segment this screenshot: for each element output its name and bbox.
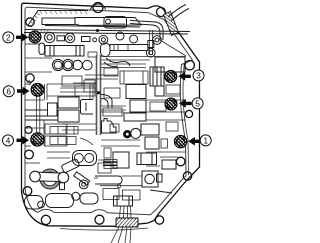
assorted interior right column [146, 40, 186, 166]
arrow for callout 1 [188, 137, 201, 146]
mid-left blocks [25, 97, 79, 122]
small parts row under rod [88, 52, 146, 68]
tube dot [97, 91, 100, 94]
svg-text:4: 4 [6, 136, 11, 146]
svg-text:3: 3 [196, 71, 201, 81]
striped terminal block [103, 160, 118, 169]
long bottom rails [100, 176, 142, 186]
mid-right blocks [124, 85, 146, 122]
svg-text:5: 5 [195, 99, 200, 109]
valve circle E [130, 35, 138, 43]
hatched bolt for callout 6 [31, 83, 44, 96]
extra center density [47, 80, 126, 158]
left perimeter bolt hole upper [26, 74, 34, 82]
svg-text:1: 1 [203, 136, 208, 146]
bottom perimeter bolt hole 1 [41, 215, 50, 224]
vertical slot stadium [39, 43, 45, 55]
hatched bolt for callout 5 [165, 98, 177, 110]
assorted interior linework left column [25, 44, 67, 163]
rod dividers [114, 45, 128, 51]
instrument grille rounded rect [104, 17, 127, 29]
circle next to donut [131, 128, 141, 138]
outer case contour [22, 3, 200, 226]
angled bolt lever [74, 172, 90, 189]
vertical tube right-center [150, 30, 153, 55]
angled white tag [61, 159, 80, 173]
roller rounded rect [101, 43, 111, 57]
hatched casting ticks left edge near hole 6 [27, 80, 34, 87]
valve circle C [99, 35, 108, 44]
top-right cable arcs [168, 5, 189, 22]
top-left perimeter bolt hole [26, 18, 34, 26]
callout circle 6 [3, 86, 14, 97]
bottom-right perimeter bolt hole [155, 216, 163, 224]
black donut [123, 130, 131, 138]
castle part [102, 119, 117, 134]
svg-text:6: 6 [6, 86, 11, 96]
svg-text:2: 2 [6, 33, 11, 43]
arrow for callout 4 [17, 136, 30, 145]
top-right lug bolt hole [157, 8, 166, 17]
port circle 3 [73, 60, 83, 70]
bottom perimeter bolt hole 2 [95, 215, 104, 224]
three port circles [52, 59, 63, 70]
hatched bolt for callout 3 [165, 70, 177, 82]
right interior vertical lines [183, 64, 189, 175]
bottom-right interior blocks [150, 160, 176, 193]
valve circle A [44, 32, 54, 42]
small pivot dot top [106, 19, 111, 24]
harness grommet hatched [116, 218, 138, 227]
callout circle 5 [192, 98, 203, 109]
striped valve band upper [50, 127, 78, 135]
small rect on rail 2 [57, 36, 65, 41]
valve body cylinder left [45, 46, 84, 57]
valve circle D [116, 32, 124, 40]
bottom small blocks [103, 189, 140, 201]
right lower perimeter bolt hole [183, 172, 191, 180]
solenoid square with circle [142, 171, 162, 187]
callout circle 1 [200, 135, 211, 146]
striped valve band lower [50, 137, 93, 146]
bottom gasket passages [25, 192, 99, 209]
right perimeter bolt hole above arrow5 [185, 110, 192, 117]
dumbbell clamp assembly [30, 169, 69, 190]
rod end cap [148, 41, 154, 48]
rounded pocket with two circles [73, 151, 97, 166]
left interior verticals [37, 84, 48, 134]
arrow for callout 5 [179, 99, 192, 108]
callout circle 2 [3, 32, 14, 43]
C bracket [81, 100, 94, 115]
elbow pipe mid [101, 95, 112, 109]
left perimeter bolt hole mid [25, 127, 32, 134]
valve circle F [153, 36, 162, 45]
small screw dot [93, 38, 97, 42]
machined edge ticks near bolt 2 [40, 29, 49, 33]
left perimeter bolt hole lower [25, 150, 34, 159]
bent pipe top-right [130, 21, 163, 41]
manual valve rod [110, 45, 148, 51]
rod ball joint [146, 48, 155, 57]
callout circle 4 [3, 135, 14, 146]
tiny pivot circle [117, 184, 121, 188]
right block upper [150, 57, 185, 96]
top-right hatched spring band [164, 12, 179, 36]
assorted interior linework center [60, 68, 140, 178]
lower wall line [60, 228, 148, 230]
arrow for callout 2 [16, 33, 29, 42]
arrow for callout 3 [178, 72, 191, 81]
right mid perimeter bolt hole [176, 157, 185, 166]
hatched bolt for callout 4 [31, 133, 44, 146]
hatched bolt for callout 1 [174, 135, 186, 147]
harness wires upper [120, 206, 132, 218]
port circle 2 [62, 59, 73, 70]
harness wires lower [111, 227, 131, 243]
valve circle B [65, 33, 75, 43]
top long bar [24, 18, 190, 35]
right-mid small rects [141, 124, 159, 149]
S lever arms [104, 58, 130, 67]
hatched bolt for callout 2 [29, 31, 41, 43]
center vertical tube [97, 55, 101, 135]
port circle 4 [83, 60, 93, 70]
junction dot [96, 29, 99, 32]
arrow for callout 6 [17, 87, 30, 96]
right perimeter bolt hole above callout3 [185, 60, 194, 69]
top lug bolt hole center [91, 3, 106, 13]
small rect on rail 1 [82, 37, 91, 42]
mid center block row [100, 57, 186, 85]
bottom-left perimeter bolt hole [23, 187, 32, 196]
big center-bottom block [113, 152, 157, 168]
callout circle 3 [193, 70, 204, 81]
hatched casting edge top-left [28, 11, 89, 27]
inner flange contour [25, 7, 193, 215]
harness connector [114, 196, 133, 206]
flat bar bottom-left-center [95, 176, 122, 184]
